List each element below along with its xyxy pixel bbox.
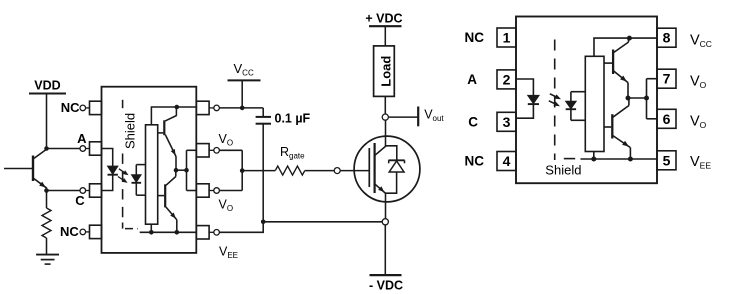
capacitor C1 [262,108,264,117]
wire Q3 emitter to VEE rail [176,220,178,233]
LED D4 [528,96,538,104]
wire amp to VCC rail [151,107,196,125]
VEE rail to IGBT emitter [263,221,382,223]
svg-text:NC: NC [60,224,79,239]
wire to pin 6 [647,118,658,120]
svg-text:Shield: Shield [122,113,137,149]
wire emitter node to pin C [47,190,80,192]
pin 5 terminal [214,230,220,236]
freewheel diode D3 [386,146,397,160]
pin 2 box [497,70,516,89]
transistor Q5 upper [612,50,614,75]
svg-text:3: 3 [503,114,511,130]
resistor R1 [46,191,48,209]
pin 4 box [90,225,102,238]
svg-text:- VDC: - VDC [369,279,403,293]
pin 7 box [196,144,209,157]
wire pin8 to capacitor [219,107,263,109]
node VCC rail junction [175,105,180,110]
wire load to collector node [384,96,386,114]
wire amp to VCC rail [594,38,657,56]
svg-text:NC: NC [465,154,485,169]
pin 6 box [196,184,209,197]
wire collector node to pin A [47,148,80,150]
svg-text:A: A [467,72,477,87]
pin7-pin6 connector vertical [646,79,648,119]
svg-text:8: 8 [663,30,671,46]
IGBT Q4 body circle [354,136,420,202]
svg-text:6: 6 [663,111,671,127]
transistor Q1 base wire [4,168,33,170]
package outline U2 [516,17,657,184]
optocoupler U1 package [102,87,197,253]
wire VDD to Q1 collector node [46,94,48,149]
IGBT channel bar [374,143,376,193]
pin 1 box [497,28,516,47]
wire node to pins vertical [176,169,187,171]
LED D4 anode wire [516,79,533,96]
ground [36,254,59,256]
wire amp to VEE rail [150,224,152,232]
resistor Rgate [275,166,305,175]
wire VCC bar to rail [241,80,243,108]
light arrows [550,94,559,98]
pin 2 box [90,142,102,155]
LED D1 cathode wire [102,175,113,191]
wire pin6 to gate node [219,190,242,192]
wire amp to VEE rail [593,152,595,160]
Vout terminal bar [417,107,419,127]
svg-text:A: A [77,131,87,146]
pin 4 box [497,152,516,171]
pin 2 terminal [80,146,86,152]
svg-text:C: C [468,115,478,130]
+VDC bar [369,25,402,27]
amplifier block U1A [146,125,158,224]
photodiode D2 [136,164,145,166]
node VCC [240,106,245,111]
svg-text:C: C [75,193,85,208]
amplifier block U2A [585,56,604,151]
wire Q5 emitter to node [627,83,629,98]
pin 8 terminal [214,105,220,111]
pin 5 box [196,226,209,239]
node VO [240,168,245,173]
VDD supply bar [29,93,66,95]
wire node to Rgate [242,170,275,172]
wire pin7 to gate node [219,149,242,151]
svg-text:7: 7 [663,71,671,87]
svg-text:0.1 µF: 0.1 µF [275,111,311,125]
transistor Q1 [32,156,34,182]
wire Q6 emitter to VEE rail [629,148,631,159]
pin 1 box [90,101,102,114]
-VDC bar [370,274,402,276]
node output junction [626,96,631,101]
pin 7 terminal [214,148,220,154]
pin 8 box [657,28,676,47]
wire emitter to -VDC [384,225,386,274]
svg-text:+ VDC: + VDC [365,12,402,26]
node VCC rail junction [627,36,632,41]
pin 3 box [90,184,102,197]
IGBT gate bar [368,148,370,187]
pin 6 box [657,109,676,128]
wire Rgate to IGBT gate [305,170,334,172]
LED D4 cathode wire [516,104,533,118]
node collector junction [44,146,49,151]
IGBT collector [375,146,386,155]
wire to Vout [388,116,418,118]
photodiode D5 [571,91,585,93]
svg-text:2: 2 [503,71,511,87]
svg-text:5: 5 [663,152,671,168]
load Z1 [374,46,395,97]
svg-text:NC: NC [465,30,485,45]
VEE rail [581,158,658,160]
wire to pin 6 [187,190,197,192]
wire +VDC to load [384,26,386,46]
transistor Q3 lower [164,184,166,207]
pin 7 box [657,69,676,88]
wire to pin 7 [647,78,658,80]
svg-text:1: 1 [503,30,511,46]
svg-text:Load: Load [379,56,394,87]
wire pin5 VEE jog [219,222,263,233]
pin 4 terminal [80,229,86,235]
gate terminal [334,168,340,174]
svg-text:VDD: VDD [34,79,60,93]
LED D1 [108,166,118,174]
LED D1 anode wire [102,149,113,167]
emitter terminal [382,219,388,225]
wire Q2 emitter to node [175,156,177,170]
wire VO vertical [241,150,243,190]
IGBT emitter [375,184,386,193]
node output junction [174,168,179,173]
wire node to pin connector [628,97,647,99]
pin 3 box [497,112,516,131]
node VEE-cap [261,220,266,225]
VCC supply bar [228,79,261,81]
pin 3 terminal [80,188,86,194]
transistor Q2 upper [163,120,165,135]
pin 5 box [657,151,676,170]
VEE rail [140,231,197,233]
svg-text:NC: NC [61,100,80,115]
node emitter junction [44,188,49,193]
shield dashed line [122,100,124,108]
collector terminal [382,114,388,120]
light arrows [119,169,127,174]
wire to pin 7 [187,149,197,151]
pin 8 box [196,101,209,114]
svg-text:Shield: Shield [545,162,581,177]
pin 6 terminal [214,188,220,194]
transistor Q6 lower [611,114,613,138]
shield dashed line [554,40,556,161]
pin 1 terminal [80,105,86,111]
svg-text:4: 4 [503,153,511,169]
